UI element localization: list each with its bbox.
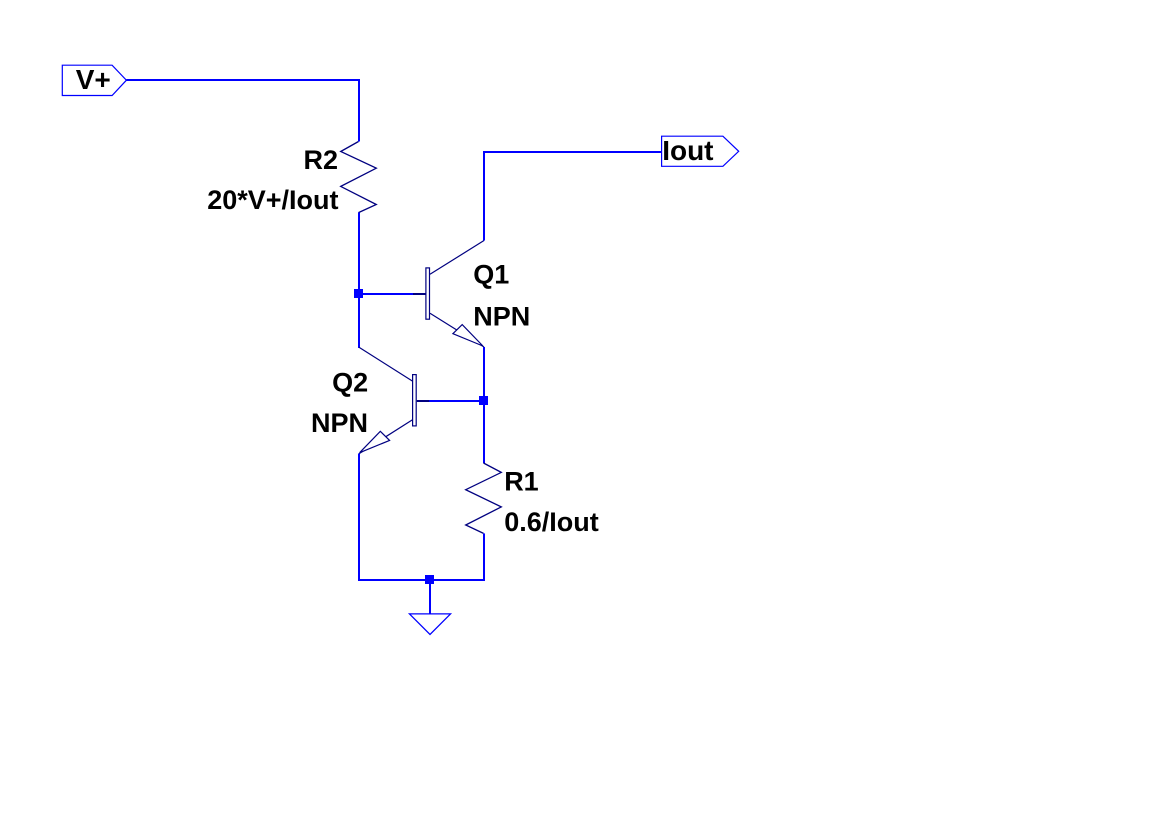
- svg-text:NPN: NPN: [473, 302, 530, 332]
- node B junction: [479, 396, 488, 405]
- resistor R2: [207, 142, 376, 216]
- wire node A to Q1 base: [359, 293, 414, 295]
- svg-text:V+: V+: [76, 64, 111, 95]
- wire Q2 emitter down to rail: [358, 454, 360, 582]
- port flag V+: [62, 64, 126, 96]
- svg-text:Q2: Q2: [332, 368, 368, 398]
- wire R1 bottom to rail: [483, 533, 485, 581]
- transistor Q2: [311, 347, 429, 454]
- wire Q1 collector up: [483, 151, 485, 241]
- port flag Iout: [662, 135, 739, 166]
- wire R2 bottom through node A to Q2 collector: [358, 213, 360, 349]
- wire to Iout flag: [483, 151, 662, 153]
- wire Q1 emitter down to node B: [483, 347, 485, 401]
- svg-text:20*V+/Iout: 20*V+/Iout: [207, 185, 338, 215]
- wire Q2 base to node B: [429, 400, 484, 402]
- wire corner down to R2: [358, 79, 360, 142]
- svg-text:R1: R1: [504, 466, 539, 496]
- svg-text:NPN: NPN: [311, 408, 368, 438]
- wire node B down to R1: [483, 400, 485, 463]
- ground: [410, 614, 451, 635]
- resistor R1: [466, 463, 599, 537]
- svg-text:Iout: Iout: [662, 135, 713, 166]
- wire bottom rail: [358, 579, 485, 581]
- svg-text:Q1: Q1: [473, 260, 509, 290]
- node A junction: [354, 289, 363, 298]
- svg-text:R2: R2: [303, 145, 338, 175]
- wire ground stem: [429, 579, 431, 614]
- svg-text:0.6/Iout: 0.6/Iout: [504, 507, 599, 537]
- node C junction: [425, 575, 434, 584]
- wire V+ to corner: [126, 79, 360, 81]
- transistor Q1: [413, 241, 530, 348]
